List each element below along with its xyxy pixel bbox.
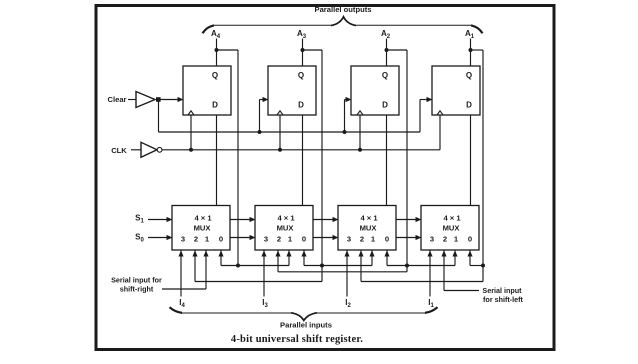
svg-text:Clear: Clear — [108, 95, 127, 104]
svg-text:3: 3 — [264, 235, 268, 244]
svg-text:for shift-left: for shift-left — [483, 295, 524, 304]
svg-text:3: 3 — [347, 235, 351, 244]
svg-text:CLK: CLK — [111, 146, 127, 155]
svg-text:Parallel inputs: Parallel inputs — [280, 321, 332, 330]
svg-text:Q: Q — [298, 71, 304, 80]
svg-text:D: D — [466, 101, 472, 110]
svg-text:MUX: MUX — [277, 224, 294, 233]
svg-text:0: 0 — [219, 235, 223, 244]
svg-text:2: 2 — [443, 235, 447, 244]
svg-text:MUX: MUX — [360, 224, 377, 233]
svg-text:4 × 1: 4 × 1 — [443, 214, 461, 223]
svg-text:0: 0 — [468, 235, 472, 244]
svg-text:Q: Q — [382, 71, 388, 80]
svg-text:4 × 1: 4 × 1 — [277, 214, 295, 223]
svg-text:MUX: MUX — [194, 224, 211, 233]
svg-text:0: 0 — [302, 235, 306, 244]
svg-text:Q: Q — [466, 71, 472, 80]
svg-text:Serial input: Serial input — [482, 286, 522, 295]
svg-text:D: D — [212, 101, 218, 110]
svg-text:Parallel outputs: Parallel outputs — [315, 5, 372, 14]
svg-text:3: 3 — [430, 235, 434, 244]
svg-text:D: D — [382, 101, 388, 110]
svg-text:4 × 1: 4 × 1 — [360, 214, 378, 223]
svg-text:Q: Q — [212, 71, 218, 80]
svg-text:3: 3 — [181, 235, 185, 244]
svg-text:0: 0 — [385, 235, 389, 244]
svg-text:4 × 1: 4 × 1 — [194, 214, 212, 223]
svg-text:2: 2 — [360, 235, 364, 244]
svg-text:Serial input for: Serial input for — [111, 275, 162, 284]
svg-text:MUX: MUX — [443, 224, 460, 233]
svg-text:2: 2 — [277, 235, 281, 244]
svg-text:D: D — [298, 101, 304, 110]
svg-text:2: 2 — [194, 235, 198, 244]
svg-text:4-bit universal shift regis: 4-bit universal shift register. — [231, 334, 363, 345]
svg-text:shift-right: shift-right — [120, 284, 154, 293]
